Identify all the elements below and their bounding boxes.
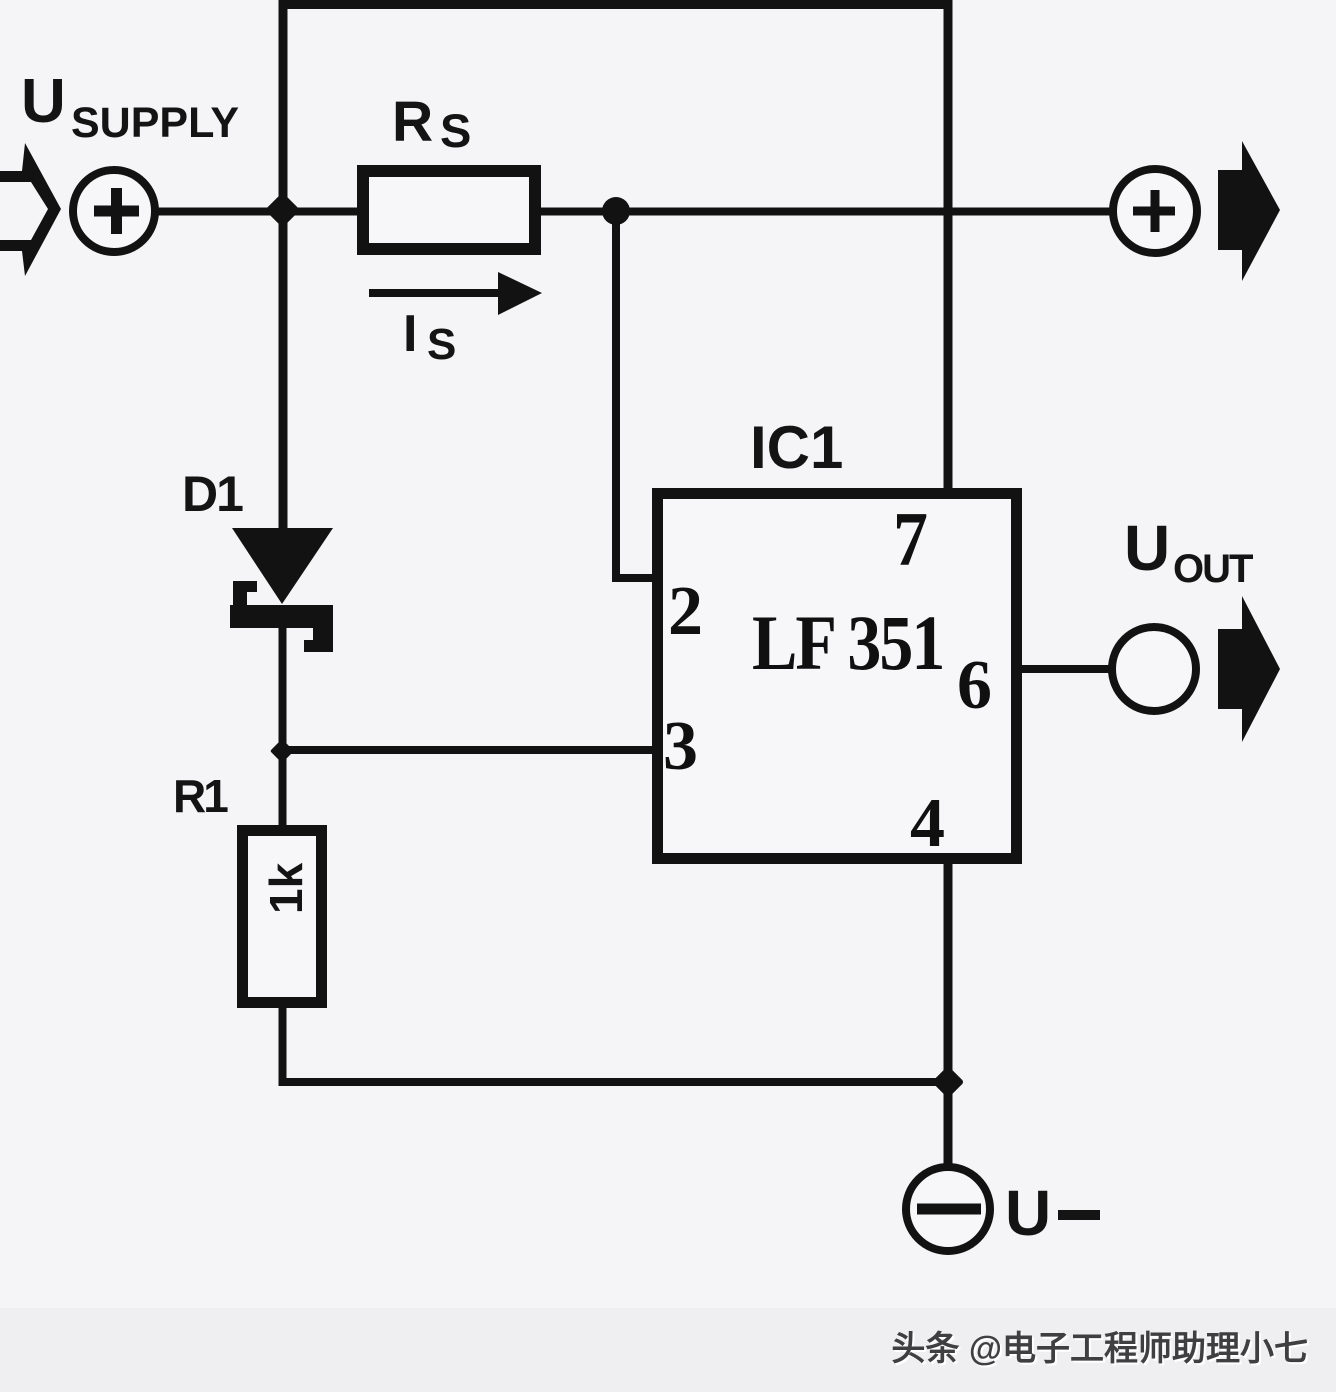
pin 7 [893,496,928,582]
output + terminal circle (top right) [1113,169,1197,253]
wire pin6 to U_OUT circle [1020,665,1114,673]
wire right vertical from top rail to IC pin 7 [944,0,953,490]
U_OUT terminal circle [1112,627,1196,711]
label LF 351 [752,598,943,686]
diode D1 (zener) [232,528,333,604]
svg-text:U: U [1005,1177,1051,1249]
wire pin2 bend from RS-right node [616,212,654,578]
svg-text:U: U [21,67,66,136]
svg-text:R: R [392,90,433,154]
svg-text:D1: D1 [182,466,243,522]
supply + source circle [73,170,155,252]
wire D1 cathode to node A [279,628,287,758]
node pin4 bottom junction dot [932,1066,965,1099]
U- source circle [906,1167,990,1251]
svg-text:U: U [1124,512,1170,584]
svg-text:I: I [403,305,417,363]
node A junction dot (D1/R1/pin3) [270,739,294,763]
wire node A to R1 top [279,751,287,831]
current arrow IS [369,289,504,297]
op-amp IC1 box [658,494,1017,859]
wire left vertical (supply node down to D1) [279,0,288,533]
svg-text:头条 @电子工程师助理小七: 头条 @电子工程师助理小七 [891,1330,1308,1368]
svg-text:1k: 1k [260,862,312,914]
wire top rail [279,0,952,9]
svg-text:OUT: OUT [1173,547,1253,591]
svg-text:3: 3 [663,708,698,785]
node RS-right junction dot [602,197,630,225]
wire bottom rail to pin4 junction [282,1078,948,1086]
svg-text:LF 351: LF 351 [752,598,943,686]
resistor RS [363,171,535,249]
svg-text:IC1: IC1 [750,414,843,481]
svg-text:S: S [427,320,456,369]
input arrow U supply [0,143,61,276]
svg-text:S: S [440,104,471,157]
output arrow (top right) [1218,141,1280,281]
svg-text:SUPPLY: SUPPLY [71,99,239,147]
node supply junction dot [265,192,300,227]
svg-text:7: 7 [893,496,928,582]
svg-text:R1: R1 [173,770,228,822]
wire R1 bottom to bottom rail corner [283,1008,953,1082]
svg-text:6: 6 [957,647,992,724]
svg-text:2: 2 [668,573,703,650]
resistor R1 [243,831,322,1003]
svg-text:4: 4 [910,785,945,862]
wire pin3 horizontal [282,746,654,754]
wire IC pin 4 down to U- circle [944,862,953,1168]
output arrow U_OUT [1218,596,1280,742]
wire main horizontal supply line [155,208,363,216]
